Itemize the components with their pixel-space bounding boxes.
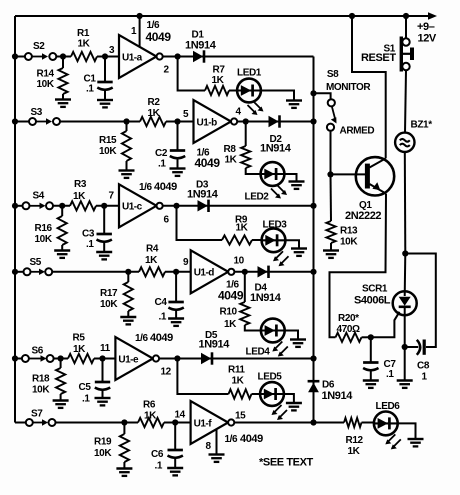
- wire LED5 to ground: [284, 394, 294, 403]
- svg-text:1K: 1K: [348, 446, 361, 457]
- wire R7 to LED1: [229, 90, 238, 92]
- svg-text:D6: D6: [322, 380, 335, 391]
- svg-text:1K: 1K: [73, 344, 86, 355]
- svg-text:R16: R16: [35, 223, 53, 234]
- node S1 rail junction: [403, 13, 409, 19]
- LED3: [262, 228, 286, 252]
- svg-text:1N914: 1N914: [250, 292, 282, 304]
- svg-text:1/6: 1/6: [135, 333, 149, 344]
- resistor R20* 470ohm: [336, 333, 362, 342]
- svg-text:R17: R17: [100, 288, 118, 299]
- svg-text:1K: 1K: [144, 411, 157, 422]
- wire R11 to LED5: [252, 393, 262, 395]
- resistor R16 10K: [61, 206, 63, 216]
- svg-text:.1: .1: [82, 394, 90, 405]
- op-amp U1-a (inverter 1/6 4049): [119, 35, 157, 78]
- svg-text:R14: R14: [37, 69, 55, 80]
- svg-text:10K: 10K: [100, 299, 118, 310]
- node S5 row left-bus junction: [12, 269, 18, 275]
- node R15 junction: [123, 118, 129, 124]
- wire S7 to R6: [56, 422, 139, 424]
- svg-text:2N2222: 2N2222: [345, 210, 381, 222]
- resistor R9 1K: [222, 235, 252, 244]
- node S4 row left-bus junction: [12, 203, 18, 209]
- svg-text:+9–: +9–: [417, 21, 435, 33]
- wire U1-a output row: [163, 56, 314, 58]
- node R20/C7 junction: [368, 334, 374, 340]
- svg-text:2: 2: [164, 65, 170, 76]
- ground LED4: [290, 338, 306, 340]
- capacitor C2 .1: [177, 122, 179, 151]
- wire R5 to U1-e pin 11: [94, 358, 115, 360]
- LED1: [237, 79, 261, 103]
- node R18 junction: [58, 355, 64, 361]
- svg-text:R3: R3: [74, 179, 87, 190]
- node S6 row left-bus junction: [12, 355, 18, 361]
- svg-text:4049: 4049: [218, 289, 244, 303]
- capacitor C7 .1: [370, 337, 372, 362]
- ground C4: [168, 317, 184, 319]
- resistor R3 1K: [70, 201, 96, 210]
- svg-text:.1: .1: [86, 84, 94, 95]
- svg-text:C2: C2: [155, 148, 168, 159]
- node D4 row bus junction: [310, 269, 316, 275]
- svg-text:1/6: 1/6: [225, 434, 239, 445]
- resistor R6 1K: [138, 418, 164, 427]
- svg-text:4049: 4049: [195, 156, 221, 170]
- svg-text:1K: 1K: [225, 155, 238, 166]
- wire R9 to LED3: [252, 239, 263, 241]
- LED5: [260, 382, 284, 406]
- node R17 junction: [125, 269, 131, 275]
- wire S1 to BZ1: [405, 70, 406, 133]
- capacitor C3 .1: [103, 206, 105, 234]
- svg-text:S5: S5: [30, 257, 42, 268]
- svg-text:*SEE TEXT: *SEE TEXT: [259, 457, 314, 469]
- svg-text:MONITOR: MONITOR: [326, 82, 371, 93]
- resistor R19 10K: [123, 423, 125, 435]
- resistor R11 1K: [229, 389, 252, 398]
- wire LED6 to ground: [397, 423, 416, 438]
- svg-text:SCR1: SCR1: [362, 284, 388, 295]
- ground R16: [54, 249, 70, 251]
- transistor Q1 2N2222: [356, 157, 394, 195]
- wire R6 to U1-f pin 14: [164, 422, 191, 424]
- svg-text:RESET: RESET: [361, 52, 396, 64]
- wire U1-f output row: [234, 422, 344, 424]
- switch S5: [15, 271, 24, 273]
- diode D1 1N914: [193, 51, 203, 62]
- wire Q1 emitter to R20: [330, 194, 387, 338]
- svg-text:R6: R6: [143, 400, 156, 411]
- svg-text:10K: 10K: [32, 385, 50, 396]
- svg-text:10K: 10K: [99, 146, 117, 157]
- ground LED6: [408, 438, 424, 440]
- resistor R12 1K: [344, 418, 362, 427]
- capacitor C4 .1: [175, 272, 177, 302]
- svg-text:U1-e: U1-e: [118, 354, 139, 365]
- svg-text:3: 3: [109, 45, 115, 56]
- svg-text:1N914: 1N914: [199, 339, 231, 351]
- ground LED1: [286, 99, 302, 101]
- wire U1-c output row: [163, 205, 314, 207]
- capacitor C6 .1: [174, 423, 176, 451]
- ground LED5: [286, 402, 302, 404]
- svg-text:12: 12: [161, 367, 172, 378]
- wire SCR gate: [367, 312, 400, 338]
- resistor R2 1K: [140, 117, 166, 126]
- svg-text:LED1: LED1: [237, 68, 262, 79]
- svg-text:LED2: LED2: [245, 192, 270, 203]
- svg-text:1N914: 1N914: [185, 40, 217, 52]
- wire LED1 to ground: [260, 91, 294, 101]
- svg-text:R7: R7: [213, 65, 226, 76]
- svg-text:C6: C6: [151, 449, 164, 460]
- wire pin 1 to +V rail: [139, 16, 141, 47]
- svg-text:1N914: 1N914: [260, 143, 292, 155]
- switch S7: [15, 422, 26, 424]
- svg-text:14: 14: [175, 410, 186, 421]
- svg-text:C8: C8: [417, 360, 430, 371]
- diode D6 1N914: [308, 380, 320, 383]
- svg-text:S6: S6: [32, 346, 44, 357]
- svg-text:C3: C3: [82, 229, 95, 240]
- op-amp U1-c (inverter 1/6 4049): [119, 184, 157, 227]
- svg-text:S4006L: S4006L: [354, 294, 391, 306]
- node S3 row left-bus junction: [12, 118, 18, 124]
- wire Q1 collector to +V rail: [352, 16, 386, 158]
- svg-text:9: 9: [183, 257, 189, 268]
- wire R4 to U1-d pin 9: [165, 271, 191, 273]
- wire LED5 branch: [177, 359, 228, 395]
- ground C7: [363, 379, 379, 381]
- svg-text:4049: 4049: [146, 30, 172, 44]
- svg-text:R18: R18: [32, 374, 50, 385]
- resistor R15 10K: [126, 122, 128, 132]
- svg-text:1K: 1K: [212, 75, 225, 86]
- ground C5: [95, 397, 111, 399]
- svg-text:1N914: 1N914: [187, 189, 219, 201]
- svg-text:R12: R12: [346, 435, 364, 446]
- svg-text:1: 1: [131, 26, 137, 37]
- buzzer BZ1: [395, 133, 414, 152]
- svg-text:LED5: LED5: [258, 372, 283, 383]
- svg-text:LED4: LED4: [246, 347, 271, 358]
- wire R3 to U1-c pin 7: [96, 205, 119, 207]
- node C3 junction: [101, 203, 107, 209]
- svg-text:1N914: 1N914: [322, 390, 354, 402]
- LED2: [261, 162, 285, 186]
- wire +V top rail: [15, 15, 431, 17]
- svg-text:4049: 4049: [150, 332, 173, 344]
- wire S8 to Q1 base: [331, 131, 366, 175]
- svg-text:12V: 12V: [418, 33, 437, 45]
- wire S6 to R5: [54, 358, 68, 360]
- switch S8 MONITOR/ARMED: [314, 93, 331, 99]
- svg-text:1K: 1K: [148, 108, 161, 119]
- svg-text:4049: 4049: [240, 433, 263, 445]
- ground C6: [167, 467, 183, 469]
- wire U1-b output row: [237, 121, 313, 123]
- svg-text:R15: R15: [99, 135, 117, 146]
- wire S3 to R2: [60, 121, 140, 123]
- svg-text:1K: 1K: [232, 376, 245, 387]
- node anode/C8 junction: [402, 250, 408, 256]
- resistor R1 1K: [71, 52, 97, 61]
- resistor R10 1K: [244, 272, 246, 302]
- wire C8 loop: [405, 254, 436, 348]
- diode D4 1N914: [258, 266, 268, 277]
- svg-text:10: 10: [234, 255, 245, 266]
- node R19 junction: [121, 419, 127, 425]
- svg-text:470Ω: 470Ω: [337, 324, 360, 335]
- node D5 row bus junction: [310, 355, 316, 361]
- node U1-a output junction: [175, 53, 181, 59]
- op-amp U1-e (inverter 1/6 4049): [115, 337, 152, 380]
- SCR1 S4006L: [404, 254, 407, 297]
- wire R2 to U1-b pin 5: [166, 121, 194, 123]
- svg-text:S7: S7: [31, 409, 43, 420]
- svg-text:15: 15: [235, 410, 246, 421]
- LED4: [261, 319, 285, 343]
- svg-text:C4: C4: [155, 297, 168, 308]
- node U1-d output junction: [242, 269, 248, 275]
- svg-text:.1: .1: [159, 312, 167, 323]
- svg-text:S4: S4: [33, 191, 45, 202]
- svg-text:.1: .1: [86, 239, 94, 250]
- ground pin 8: [209, 453, 225, 455]
- node D3 row bus junction: [310, 203, 316, 209]
- node S8 tap on bus: [310, 90, 316, 96]
- switch S4: [15, 205, 23, 207]
- svg-text:5: 5: [183, 109, 189, 120]
- node pin1 rail junction: [137, 13, 143, 19]
- wire R12 to LED6: [362, 422, 375, 424]
- node C1 junction: [102, 53, 108, 59]
- node C5 junction: [99, 355, 105, 361]
- svg-text:S3: S3: [31, 107, 43, 118]
- resistor R17 10K: [127, 272, 129, 282]
- svg-text:.1: .1: [158, 159, 166, 170]
- node C4 junction: [173, 269, 179, 275]
- diode D3 1N914: [198, 200, 208, 211]
- node R16 junction: [59, 203, 65, 209]
- svg-text:R13: R13: [340, 226, 358, 237]
- node U1-c output junction: [173, 203, 179, 209]
- op-amp U1-f (inverter 1/6 4049): [191, 401, 229, 444]
- switch S3: [15, 121, 29, 123]
- svg-text:C5: C5: [79, 382, 92, 393]
- svg-text:8: 8: [206, 441, 212, 452]
- ground R13: [323, 249, 339, 251]
- svg-text:R2: R2: [148, 97, 161, 108]
- svg-text:U1-b: U1-b: [197, 117, 218, 128]
- svg-text:7: 7: [109, 190, 115, 201]
- ground R15: [119, 169, 135, 171]
- svg-text:11: 11: [100, 343, 111, 354]
- wire U1-e output row: [159, 358, 313, 360]
- node C6 junction: [172, 419, 178, 425]
- wire LED4 to ground: [285, 331, 299, 340]
- node U1-e output junction: [174, 355, 180, 361]
- resistor R18 10K: [60, 359, 62, 369]
- LED6: [374, 412, 398, 436]
- svg-text:R10: R10: [220, 307, 238, 318]
- svg-text:R1: R1: [77, 28, 90, 39]
- op-amp U1-b (inverter 1/6 4049): [194, 100, 232, 143]
- svg-text:1K: 1K: [73, 191, 86, 202]
- node S2 row left-bus junction: [12, 53, 18, 59]
- op-amp U1-d (inverter 1/6 4049): [191, 250, 229, 293]
- wire diode-OR bus: [313, 57, 315, 424]
- svg-text:R20*: R20*: [338, 313, 359, 324]
- diode D2 1N914: [269, 116, 279, 127]
- svg-text:4: 4: [236, 107, 242, 118]
- svg-text:6: 6: [164, 215, 170, 226]
- resistor R14 10K: [62, 57, 64, 69]
- svg-text:LED3: LED3: [263, 220, 288, 231]
- svg-text:ARMED: ARMED: [340, 126, 375, 137]
- resistor R4 1K: [139, 267, 165, 276]
- switch S1 RESET: [405, 16, 407, 38]
- svg-text:U1-d: U1-d: [194, 268, 215, 279]
- svg-text:.1: .1: [155, 461, 163, 472]
- node D2 row bus junction: [310, 118, 316, 124]
- pin 8 ground wire: [216, 429, 218, 454]
- svg-text:1K: 1K: [145, 255, 158, 266]
- svg-text:4049: 4049: [154, 181, 177, 193]
- svg-text:10K: 10K: [35, 234, 53, 245]
- svg-text:10K: 10K: [94, 448, 112, 459]
- ground LED2: [289, 180, 305, 182]
- svg-text:S8: S8: [327, 69, 339, 80]
- node U1-f output bus junction: [310, 419, 316, 425]
- svg-text:S2: S2: [33, 41, 45, 52]
- wire LED1 branch: [178, 57, 205, 91]
- node U1-b output junction: [243, 118, 249, 124]
- resistor R13 10K: [330, 174, 333, 221]
- switch S6: [15, 358, 22, 360]
- wire LED3 to ground: [285, 240, 299, 248]
- svg-text:R11: R11: [228, 365, 245, 376]
- svg-text:1K: 1K: [224, 319, 237, 330]
- svg-text:R4: R4: [146, 244, 159, 255]
- ground C2: [170, 167, 186, 169]
- svg-text:U1-c: U1-c: [122, 202, 143, 213]
- wire left input bus: [14, 16, 16, 423]
- svg-text:R5: R5: [73, 333, 86, 344]
- svg-text:1K: 1K: [236, 222, 249, 233]
- wire R1 to U1-a pin 3: [97, 56, 119, 58]
- ground R14: [55, 98, 71, 100]
- svg-text:R19: R19: [94, 437, 112, 448]
- wire LED2 to ground: [284, 174, 297, 181]
- capacitor C5 .1: [102, 359, 104, 383]
- node collector rail junction: [349, 13, 355, 19]
- wire SCR cathode to ground: [404, 315, 406, 380]
- switch S2: [15, 56, 25, 58]
- svg-text:BZ1*: BZ1*: [411, 120, 433, 131]
- capacitor C1 .1: [104, 57, 106, 83]
- ground R19: [116, 467, 132, 469]
- svg-text:10K: 10K: [37, 79, 55, 90]
- node C2 junction: [174, 118, 180, 124]
- wire S2 to R1: [56, 56, 71, 58]
- svg-text:1/6: 1/6: [139, 182, 153, 193]
- resistor R8 1K: [245, 122, 247, 147]
- svg-text:10K: 10K: [340, 237, 358, 248]
- wire BZ1 to SCR anode: [404, 152, 407, 254]
- ground LED3: [291, 247, 307, 249]
- ground C1: [97, 99, 113, 101]
- node base/R13 junction: [327, 171, 333, 177]
- svg-text:.1: .1: [386, 369, 394, 380]
- capacitor C8 1: [423, 340, 426, 355]
- ground C3: [96, 251, 112, 253]
- svg-text:1K: 1K: [78, 39, 91, 50]
- node R14 junction: [60, 53, 66, 59]
- node cathode/C8 junction: [402, 344, 408, 350]
- ground R18: [53, 399, 69, 401]
- wire S4 to R3: [53, 205, 70, 207]
- svg-text:LED6: LED6: [376, 401, 401, 412]
- resistor R7 1K: [205, 86, 229, 95]
- wire LED3 branch: [177, 206, 223, 240]
- ground SCR cathode: [397, 379, 413, 381]
- svg-text:U1-a: U1-a: [122, 52, 143, 63]
- ground R17: [120, 316, 136, 318]
- wire U1-d output row: [234, 271, 313, 273]
- svg-text:R8: R8: [224, 144, 237, 155]
- wire S5 to R4: [52, 271, 139, 273]
- diode D5 1N914: [201, 353, 211, 364]
- svg-text:U1-f: U1-f: [194, 418, 213, 429]
- svg-text:1: 1: [422, 372, 428, 383]
- resistor R5 1K: [68, 354, 94, 363]
